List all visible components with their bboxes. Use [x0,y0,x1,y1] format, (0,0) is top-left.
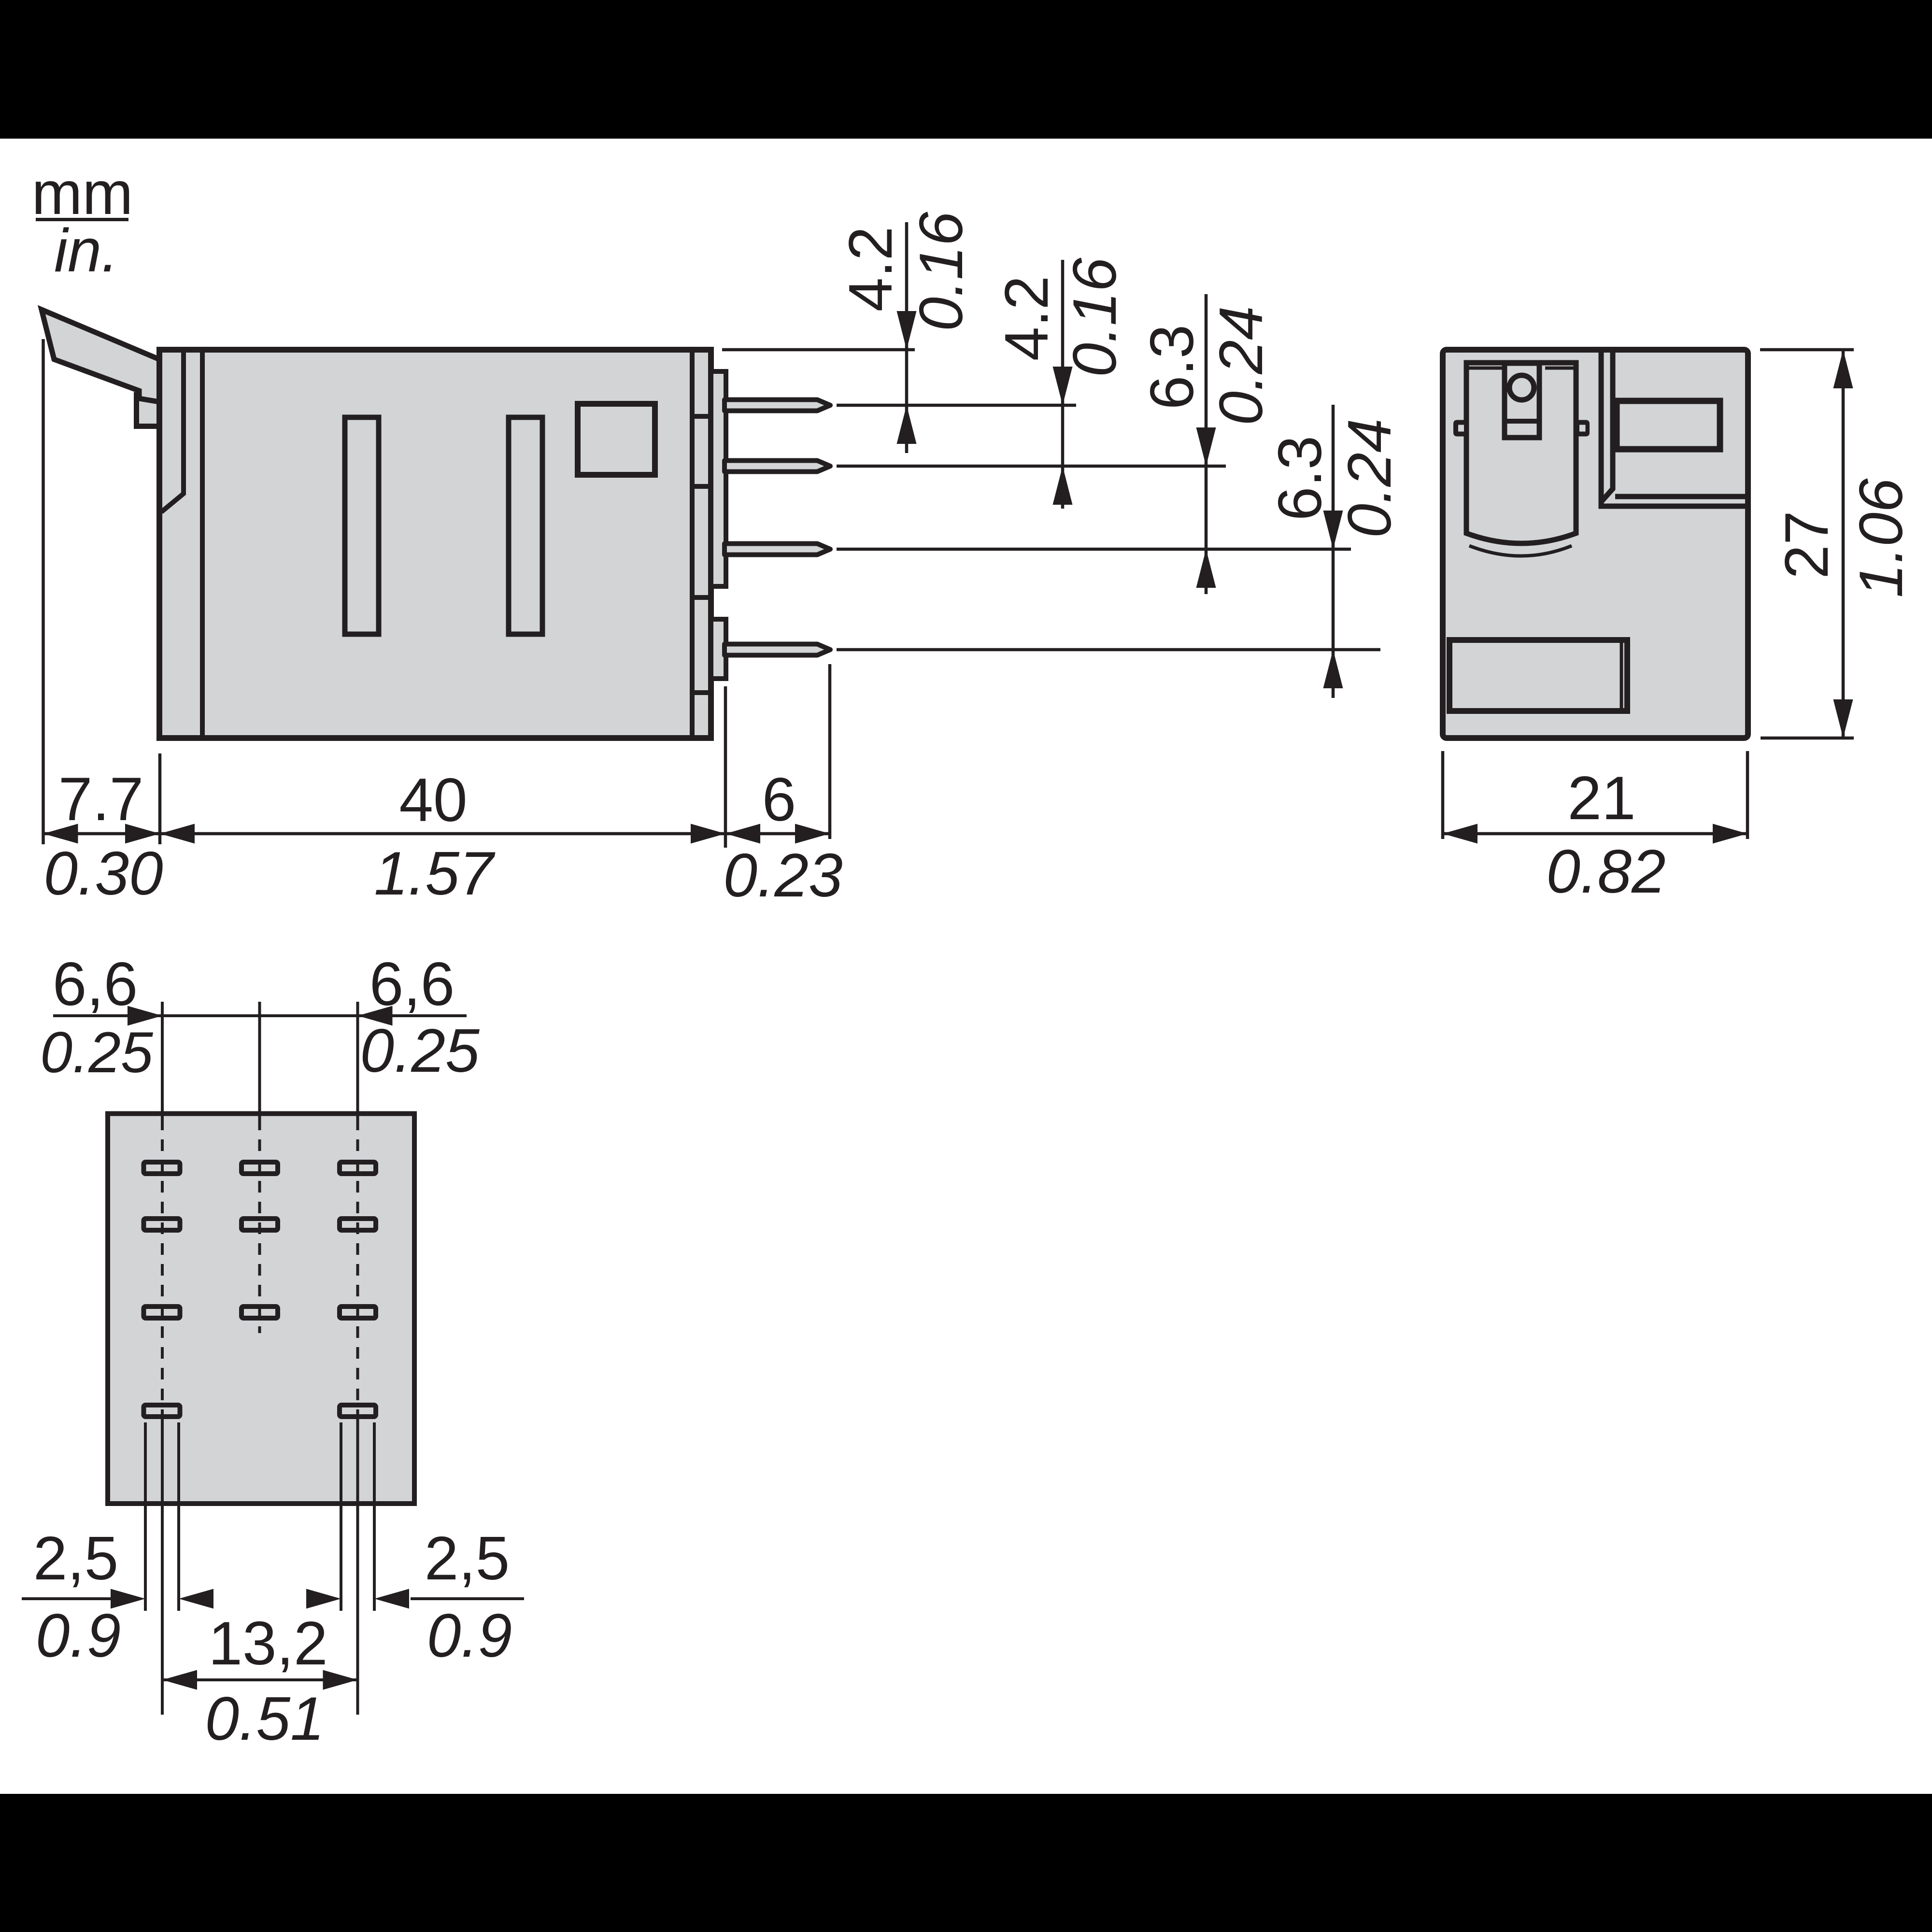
svg-text:7.7: 7.7 [58,765,144,833]
svg-text:0.23: 0.23 [723,841,842,909]
svg-text:6: 6 [762,765,796,834]
svg-text:0.16: 0.16 [1060,257,1129,377]
svg-text:2,5: 2,5 [33,1524,119,1592]
svg-text:0.9: 0.9 [36,1601,121,1670]
svg-text:0.25: 0.25 [360,1016,480,1085]
svg-text:in.: in. [54,216,118,284]
svg-text:1.06: 1.06 [1847,478,1915,598]
svg-text:2,5: 2,5 [425,1524,510,1592]
svg-text:1.57: 1.57 [374,839,496,908]
svg-text:6.3: 6.3 [1137,325,1206,410]
svg-text:0.82: 0.82 [1546,837,1665,906]
svg-text:0.16: 0.16 [907,212,975,331]
svg-text:0.25: 0.25 [40,1020,154,1085]
svg-text:40: 40 [399,766,467,834]
svg-text:0.24: 0.24 [1207,306,1275,425]
svg-text:0.9: 0.9 [427,1601,512,1670]
svg-text:6.3: 6.3 [1265,436,1334,521]
svg-text:0.51: 0.51 [205,1684,324,1753]
svg-text:6,6: 6,6 [369,950,455,1018]
svg-text:13,2: 13,2 [208,1609,327,1677]
svg-text:21: 21 [1567,764,1635,832]
svg-text:0.24: 0.24 [1335,418,1404,538]
svg-text:6,6: 6,6 [53,950,138,1018]
svg-text:4.2: 4.2 [836,227,905,312]
svg-text:0.30: 0.30 [43,839,163,908]
svg-text:4.2: 4.2 [992,276,1061,361]
svg-text:27: 27 [1772,511,1841,579]
